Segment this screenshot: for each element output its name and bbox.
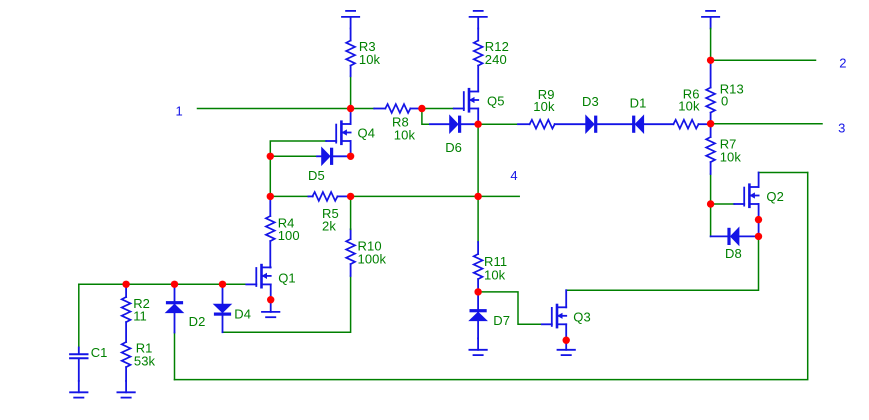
wire: node 1 horizontal run [198,108,375,110]
ground below C1 [70,381,87,398]
wire: D2 bottom to bottom loop [174,333,176,380]
power rail symbol above R3 [342,11,359,29]
wire: Q2 drain up and right to loop [759,172,808,174]
junction D5 anode [267,153,274,160]
wire: node 4 from R5 right junction to open end [351,195,520,197]
svg-text:Q1: Q1 [278,271,296,286]
resistor R6 [644,120,711,129]
svg-text:2: 2 [839,56,846,71]
svg-text:10k: 10k [484,268,506,283]
wire: R10 top lead from node 4 [350,196,352,229]
wire: D5 anode from left junction [270,155,317,157]
junction Q3 source [563,337,570,344]
svg-text:240: 240 [485,52,507,67]
svg-text:D4: D4 [234,307,251,322]
wire: Q2 gate junction down to D8 anode corner [710,204,712,236]
transistor Q2 [734,173,758,237]
svg-text:D2: D2 [189,314,206,329]
junction right of R8 [418,105,425,112]
resistor R8 [374,104,422,113]
svg-text:53k: 53k [134,354,156,369]
wire: node 1 from R8 junction to Q4/Q5 gate [422,108,454,110]
diode D2 [166,284,183,332]
ground below Q1 [262,301,279,318]
wire: node 4 left segment to R5 [270,195,308,197]
wire: R7 bottom to Q2 gate junction [710,174,712,204]
wire: R8 junction down and right to D6 anode [422,109,430,125]
diode D6 [430,116,478,133]
svg-text:D6: D6 [445,140,462,155]
svg-text:3: 3 [838,121,845,136]
svg-text:10k: 10k [533,99,555,114]
wire: D8 cathode junction down and left to Q3 drain [566,236,758,290]
resistor R7 [706,124,715,174]
diode D7 [470,292,487,339]
resistor R4 [266,196,275,267]
resistor R5 [308,192,350,201]
wire: node 2 power stub [710,29,712,61]
svg-text:C1: C1 [91,345,108,360]
ground below R1 [117,381,134,398]
svg-text:10k: 10k [359,52,381,67]
svg-text:D5: D5 [308,168,325,183]
capacitor C1 [70,348,87,381]
wire: C1 top lead column [78,284,80,347]
power rail symbol above R13 [702,11,719,29]
junction node 4 column crossing [474,193,481,200]
svg-text:D7: D7 [493,313,510,328]
svg-text:1: 1 [176,103,183,118]
svg-text:4: 4 [510,168,517,183]
wire: node 3 horizontal run [711,123,822,125]
transistor Q5 [454,89,478,124]
ground below D7 [469,338,486,355]
svg-text:100k: 100k [358,252,387,267]
wire: D6 junction to R9 [478,123,518,125]
svg-text:0: 0 [721,94,728,109]
wire: gate row from C1 corner to Q1 gate [79,283,247,285]
junction D8 cathode [755,233,762,240]
svg-text:10k: 10k [720,150,742,165]
wire: between D3 and D1 [597,123,632,125]
svg-text:D3: D3 [582,94,599,109]
resistor R2 [122,284,131,342]
wire: R11 junction to Q3 gate jog [478,292,542,324]
wire: Q4 gate loop left and down to node 4 [270,141,326,196]
wire: R10 bottom down and left to D4 bottom [223,276,351,332]
resistor R9 [518,120,586,129]
resistor R11 [474,242,483,292]
diode D3 [586,116,598,133]
junction Q1 source [267,296,274,303]
svg-text:Q4: Q4 [358,126,376,141]
junction D6/Q5 source [474,121,481,128]
resistor R10 [346,229,355,276]
svg-text:10k: 10k [678,99,700,114]
junction Q2 source [755,216,762,223]
wire: big feedback loop right side and bottom [175,173,808,380]
wire: Q2 gate junction to gate lead [711,203,735,205]
resistor R13 [706,60,715,123]
transistor Q4 [326,109,350,157]
resistor R3 [346,29,355,77]
junction node 3 at R13 bottom [707,120,714,127]
diode D1 [632,116,644,133]
junction R2 top [122,281,129,288]
svg-text:100: 100 [278,228,300,243]
junction node 2 at R13 top [707,57,714,64]
junction D5 cathode / Q4 source [347,153,354,160]
diode D5 [317,148,351,165]
svg-text:D8: D8 [725,246,742,261]
diode D4 [214,284,231,332]
svg-text:Q3: Q3 [573,310,591,325]
junction node 1 at R3/Q4 [347,105,354,112]
resistor R1 [122,342,131,381]
wire: column from D6 junction down through node 4 to R11 [477,124,479,242]
svg-text:2k: 2k [322,219,336,234]
junction D2 top [171,281,178,288]
power rail symbol above R12 [470,11,487,29]
svg-text:Q2: Q2 [766,189,784,204]
svg-text:Q5: Q5 [487,94,505,109]
diode D8 [711,228,759,245]
junction R7 bottom / Q2 gate [707,200,714,207]
junction R11 bottom / D7 [474,288,481,295]
transistor Q1 [246,265,270,300]
wire: node 2 horizontal run [711,59,816,61]
transistor Q3 [542,290,566,340]
svg-text:11: 11 [133,309,147,324]
svg-text:10k: 10k [394,128,416,143]
resistor R12 [474,29,483,92]
wire: R3 bottom to node 1 [350,76,352,108]
junction D4 top [219,281,226,288]
ground below Q3 [558,338,575,355]
junction node 4 at R10 top [347,193,354,200]
svg-text:D1: D1 [630,96,647,111]
junction node 4 at R4 top [267,193,274,200]
